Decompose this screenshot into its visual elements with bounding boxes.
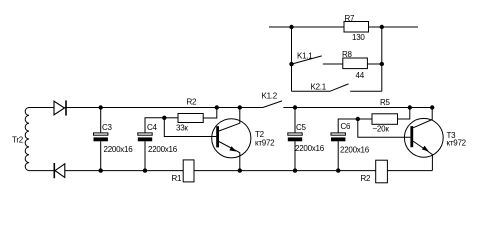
svg-text:R8: R8 <box>342 50 353 59</box>
capacitor C4 <box>145 118 164 133</box>
node: C3 top <box>99 105 103 109</box>
node: T2 emitter bottom <box>238 168 242 172</box>
transformer Tr2 winding <box>25 108 29 171</box>
svg-text:R2: R2 <box>361 174 372 183</box>
svg-text:кт972: кт972 <box>255 139 275 148</box>
svg-text:R1: R1 <box>172 174 183 183</box>
capacitor C5 <box>294 108 296 134</box>
wire: upper network right vertical <box>381 27 383 91</box>
switch K2.1 <box>292 84 382 91</box>
wire: bottom right to T3 emitter <box>387 170 432 172</box>
svg-text:Tr2: Tr2 <box>12 136 24 145</box>
node: C3 bottom <box>99 168 103 172</box>
wire: T2 base from node A <box>164 118 216 137</box>
node: C5 bottom <box>293 168 297 172</box>
svg-text:K1.2: K1.2 <box>262 92 278 101</box>
resistor R7 <box>344 22 369 33</box>
node: R5 top <box>408 105 412 109</box>
node: T3 collector rail <box>430 105 434 109</box>
resistor R2 (33k) <box>164 117 178 119</box>
svg-text:2200x16: 2200x16 <box>340 146 370 155</box>
wire: bottom rail R1 to R2 relay <box>194 170 376 172</box>
svg-text:44: 44 <box>356 71 365 80</box>
resistor R8 <box>343 58 368 69</box>
node: K1.1 left <box>289 62 293 66</box>
svg-text:K1.1: K1.1 <box>297 52 313 61</box>
node: upper net top-right <box>380 25 384 29</box>
wire: upper contact network top rail <box>269 26 418 28</box>
wire: top rail right section <box>295 107 432 109</box>
svg-text:2200x16: 2200x16 <box>148 145 178 154</box>
wire: top rail to T2 collector junction <box>64 107 239 109</box>
wire: T3 base from node B <box>358 119 411 137</box>
resistor R5 (~20k) <box>358 118 372 120</box>
svg-text:C3: C3 <box>102 123 113 132</box>
wire: top rail left <box>29 107 54 109</box>
svg-text:33к: 33к <box>176 124 188 133</box>
switch K1.2 <box>240 101 295 108</box>
node: C5 top <box>293 105 297 109</box>
svg-text:2200x16: 2200x16 <box>295 144 325 153</box>
transistor T3 <box>404 118 443 157</box>
switch K1.1 <box>292 56 343 64</box>
node: T2 collector rail <box>238 105 242 109</box>
node: R2 top <box>215 105 219 109</box>
svg-text:R5: R5 <box>380 98 391 107</box>
svg-text:2200x16: 2200x16 <box>104 145 134 154</box>
svg-text:R7: R7 <box>345 14 356 23</box>
node: C6 bottom <box>336 168 340 172</box>
diode bottom (cathode left) <box>55 164 65 178</box>
svg-text:кт972: кт972 <box>447 139 467 148</box>
node A (T2 base / R2 / C4) <box>162 116 166 120</box>
svg-text:130: 130 <box>352 33 365 42</box>
node: upper net top-left <box>289 25 293 29</box>
svg-text:K2.1: K2.1 <box>311 83 327 92</box>
node B (T3 base / R5 / C6) <box>356 117 360 121</box>
diode top (anode left) <box>54 101 64 115</box>
svg-text:C6: C6 <box>341 122 352 131</box>
svg-text:C5: C5 <box>296 123 307 132</box>
wire: bottom rail left <box>29 170 54 172</box>
svg-text:~20к: ~20к <box>373 125 390 134</box>
node: C4 bottom <box>143 168 147 172</box>
relay coil R2 <box>376 160 388 183</box>
wire: bottom rail to relay R1 <box>65 170 183 172</box>
node: R8 right <box>380 62 384 66</box>
wire: R8 right to vertical <box>367 63 381 65</box>
transistor T2 <box>212 119 251 158</box>
capacitor C6 <box>338 119 358 133</box>
capacitor C3 <box>100 108 102 134</box>
svg-text:R2: R2 <box>187 98 198 107</box>
svg-text:C4: C4 <box>147 123 158 132</box>
wire: upper network left vertical <box>291 27 293 91</box>
relay coil R1 <box>183 160 194 182</box>
